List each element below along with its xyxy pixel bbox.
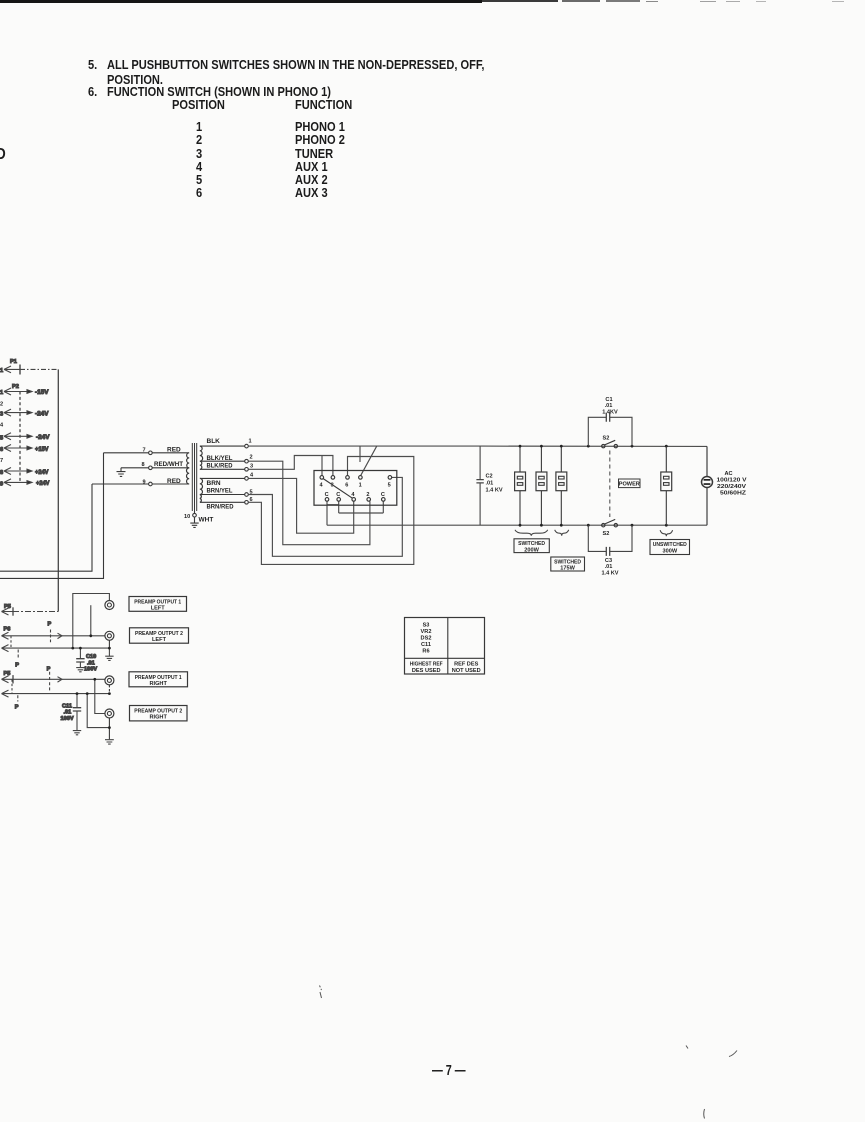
- svg-text:WHT: WHT: [199, 517, 214, 524]
- P2 pin 8 +24V: [0, 468, 49, 477]
- wire loop to jack J1: [73, 594, 110, 649]
- connector P5 lower: [2, 671, 19, 711]
- wire tap4 to selector wiper bottom: [248, 478, 353, 533]
- ground below J4: [105, 740, 114, 744]
- wire tap1 diagonal to selector contact 1: [360, 446, 377, 476]
- T1 tap 6 BRN/RED: [200, 497, 253, 511]
- AC plug J1: [702, 446, 713, 525]
- capacitor C1 bypass across S2 top: [588, 397, 632, 446]
- scan edge bar top: [0, 0, 482, 3]
- svg-text:LEFT: LEFT: [152, 637, 167, 643]
- svg-text:220/240V: 220/240V: [717, 484, 746, 490]
- brace switched 200W outlets: [515, 530, 548, 536]
- svg-text:3: 3: [0, 412, 3, 418]
- svg-text:175W: 175W: [560, 566, 575, 572]
- wire tap2 to selector bottom contact 2: [248, 461, 370, 545]
- svg-text:10: 10: [184, 514, 190, 520]
- svg-text:1.4 KV: 1.4 KV: [601, 571, 618, 577]
- svg-text:9: 9: [0, 481, 3, 487]
- svg-text:NOT USED: NOT USED: [452, 668, 481, 674]
- svg-text:-24V: -24V: [36, 434, 50, 441]
- ground below J2: [105, 648, 113, 660]
- svg-text:2: 2: [0, 402, 3, 408]
- T1 secondary winding upper: [200, 446, 203, 469]
- svg-text:R6: R6: [422, 649, 429, 655]
- RCA jack J2 preamp output 2 left: [105, 631, 114, 648]
- svg-text:C10: C10: [86, 654, 96, 660]
- svg-text:P: P: [47, 666, 51, 672]
- svg-text:100V: 100V: [84, 667, 97, 673]
- svg-text:.01: .01: [605, 403, 613, 409]
- P2 pin 5 -24V: [0, 433, 50, 442]
- svg-text:BRN/RED: BRN/RED: [207, 504, 234, 511]
- svg-text:.01: .01: [64, 710, 72, 716]
- P2 pin 6 +15V: [0, 445, 49, 454]
- svg-text:C1: C1: [605, 397, 612, 403]
- label POWER: [619, 479, 641, 488]
- voltage selector switch S1: [314, 471, 397, 506]
- wire jack J4 shell to ground bus: [87, 694, 109, 728]
- AC primary rails and selector wiring: [248, 446, 707, 564]
- svg-text:LEFT: LEFT: [151, 606, 166, 612]
- T1 pin 8: [121, 461, 189, 469]
- wire branch to jack J4: [95, 679, 105, 713]
- page number: [432, 1063, 466, 1079]
- svg-text:1.4 KV: 1.4 KV: [486, 487, 503, 493]
- svg-text:8: 8: [0, 470, 3, 476]
- svg-text:7: 7: [0, 458, 3, 464]
- transformer T1: [0, 438, 254, 578]
- svg-text:HIGHEST REF: HIGHEST REF: [410, 662, 444, 668]
- wire top rail (BLK): [248, 445, 707, 447]
- zone letter D at left edge: [0, 146, 6, 164]
- RCA jack J3 preamp output 1 right: [105, 676, 114, 694]
- svg-text:P: P: [48, 622, 52, 628]
- svg-text:BLK: BLK: [207, 438, 221, 445]
- wire jack J2 branch: [90, 605, 92, 636]
- svg-text:4: 4: [320, 483, 324, 489]
- junction dots on rails: [519, 445, 668, 527]
- wire P6 row2 ground bus: [13, 647, 109, 649]
- svg-text:1: 1: [359, 483, 362, 489]
- AC outlet SO2: [536, 446, 547, 525]
- label SWITCHED 200W: [514, 539, 549, 554]
- wire selector common bus: [327, 501, 383, 525]
- svg-text:C11: C11: [421, 642, 431, 648]
- power switch S2 bottom section: [602, 519, 618, 536]
- T1 pin 10 and WHT lead: [184, 511, 213, 524]
- capacitor C2: [476, 446, 502, 525]
- T1 tap 2 BLK/YEL: [200, 455, 253, 463]
- svg-text:100/120 V: 100/120 V: [717, 477, 747, 483]
- svg-text:.01: .01: [486, 480, 494, 486]
- svg-text:BRN/YEL: BRN/YEL: [207, 488, 233, 495]
- label SWITCHED 175W: [551, 557, 585, 572]
- RCA jack J4 preamp output 2 right: [105, 709, 114, 739]
- wire bottom rail: [327, 524, 707, 526]
- wire tap5 loop to selector contact 5: [248, 477, 402, 556]
- AC outlet SO4 unswitched: [661, 446, 672, 525]
- brace unswitched outlet: [660, 530, 673, 536]
- T1 tap 4: [200, 473, 254, 481]
- svg-text:P5: P5: [4, 671, 11, 677]
- S2 mechanical link: [609, 451, 611, 518]
- T1 pin 7: [104, 446, 190, 454]
- wire pin9 to page edge: [0, 484, 92, 571]
- svg-text:BRN: BRN: [207, 480, 221, 487]
- svg-text:-24V: -24V: [35, 410, 49, 417]
- P2 pin 1 -15V: [0, 388, 49, 396]
- svg-text:5: 5: [0, 435, 3, 441]
- capacitor C3 bypass across S2 bottom: [588, 525, 632, 576]
- svg-text:VR2: VR2: [421, 629, 432, 635]
- label UNSWITCHED 300W: [650, 540, 690, 555]
- svg-text:+24V: +24V: [35, 469, 49, 476]
- P2 pin 9 +24V: [0, 479, 50, 488]
- svg-text:C: C: [381, 492, 385, 498]
- svg-text:C11: C11: [62, 703, 72, 709]
- note text block: [88, 57, 97, 72]
- T1 tap 1 BLK: [200, 438, 252, 448]
- capacitor C10: [76, 648, 97, 673]
- wire branch to selector contact 4: [321, 456, 323, 476]
- svg-text:S2: S2: [603, 531, 610, 537]
- connector P5 upper: [2, 604, 59, 616]
- reference designator table: [405, 618, 485, 675]
- T1 core: [192, 443, 196, 511]
- wire P1 vertical bus down to P5: [57, 369, 59, 611]
- svg-text:P: P: [15, 705, 19, 711]
- T1 tap 3 BLK/RED: [200, 463, 253, 472]
- svg-text:.01: .01: [605, 564, 613, 570]
- svg-text:5: 5: [388, 483, 391, 489]
- brace switched 175W outlet: [555, 530, 569, 536]
- connector P2: [12, 384, 20, 482]
- svg-text:RED/WHT: RED/WHT: [154, 461, 183, 468]
- svg-text:PREAMP OUTPUT 1: PREAMP OUTPUT 1: [135, 675, 182, 681]
- svg-text:PREAMP OUTPUT 2: PREAMP OUTPUT 2: [135, 631, 183, 637]
- label AC voltage ratings: [717, 471, 747, 497]
- svg-text:C2: C2: [486, 474, 493, 480]
- wire pin7 to page edge: [0, 453, 104, 579]
- svg-text:50/60HZ: 50/60HZ: [720, 490, 747, 496]
- wire P6 row1 to jack J2: [13, 622, 105, 643]
- svg-text:AC: AC: [725, 471, 733, 477]
- P2 pin 3 -24V: [0, 409, 49, 418]
- S1 wiper arm: [323, 479, 352, 499]
- svg-text:S3: S3: [423, 623, 430, 629]
- svg-text:1: 1: [249, 439, 252, 445]
- svg-text:1: 1: [0, 368, 3, 374]
- junction dots bottom left: [71, 634, 110, 729]
- svg-text:RIGHT: RIGHT: [149, 715, 167, 721]
- svg-text:.01: .01: [87, 660, 95, 666]
- label PREAMP OUTPUT 1 LEFT: [129, 597, 187, 612]
- svg-text:4: 4: [0, 422, 4, 428]
- svg-text:P6: P6: [4, 627, 11, 633]
- svg-text:-15V: -15V: [35, 389, 49, 396]
- power switch S2 top section: [602, 436, 618, 448]
- svg-text:200W: 200W: [524, 547, 539, 553]
- svg-text:P2: P2: [12, 384, 19, 390]
- svg-text:+24V: +24V: [36, 480, 50, 487]
- RCA jack J1 preamp output 1 left: [105, 601, 114, 610]
- wire tap6 loop to selector contact 6: [248, 457, 413, 565]
- svg-text:P: P: [15, 663, 19, 669]
- svg-text:PREAMP OUTPUT 1: PREAMP OUTPUT 1: [134, 599, 181, 605]
- svg-text:DES USED: DES USED: [412, 668, 441, 674]
- T1 primary winding upper (pin7-8): [187, 453, 190, 468]
- svg-text:REF DES: REF DES: [454, 662, 479, 668]
- label PREAMP OUTPUT 1 RIGHT: [129, 672, 188, 687]
- svg-text:100V: 100V: [61, 716, 74, 722]
- svg-text:C3: C3: [605, 558, 612, 564]
- AC outlet SO3: [556, 446, 567, 525]
- svg-text:C: C: [336, 492, 340, 498]
- S1 bottom contacts: [325, 498, 329, 502]
- svg-text:4: 4: [250, 473, 254, 479]
- svg-text:DS2: DS2: [421, 636, 432, 642]
- AC outlet SO1: [515, 446, 526, 525]
- svg-text:4: 4: [351, 492, 355, 498]
- capacitor C11: [61, 694, 82, 735]
- svg-text:300W: 300W: [662, 549, 677, 555]
- T1 pin 9: [92, 478, 189, 486]
- svg-text:S2: S2: [603, 436, 610, 442]
- svg-text:UNSWITCHED: UNSWITCHED: [653, 542, 687, 548]
- S1 top contacts: [320, 476, 324, 480]
- svg-text:SWITCHED: SWITCHED: [554, 559, 581, 565]
- svg-text:6: 6: [345, 483, 348, 489]
- T1 secondary winding lower: [200, 478, 203, 502]
- wire P5 row2 ground bus: [13, 693, 109, 695]
- svg-text:+15V: +15V: [35, 446, 49, 453]
- ground at T1 pin 10: [190, 523, 198, 527]
- svg-text:POWER: POWER: [619, 482, 640, 488]
- scan speckles: [320, 986, 738, 1119]
- svg-text:PREAMP OUTPUT 2: PREAMP OUTPUT 2: [134, 709, 182, 715]
- label PREAMP OUTPUT 2 LEFT: [130, 628, 189, 643]
- T1 tap 5 BRN / BRN/YEL: [200, 480, 253, 497]
- wire P5 row1 to jack J3: [13, 666, 105, 692]
- svg-text:P1: P1: [10, 359, 17, 365]
- connector P6: [2, 627, 20, 669]
- label PREAMP OUTPUT 2 RIGHT: [130, 706, 188, 721]
- svg-text:2: 2: [250, 455, 253, 461]
- ground at T1 pin 8: [117, 468, 126, 477]
- svg-text:2: 2: [366, 492, 369, 498]
- connector P1: [0, 359, 58, 375]
- svg-text:C: C: [325, 492, 329, 498]
- svg-text:BLK/RED: BLK/RED: [207, 463, 233, 470]
- svg-text:RIGHT: RIGHT: [149, 681, 167, 687]
- svg-text:3: 3: [250, 463, 253, 469]
- svg-text:SWITCHED: SWITCHED: [518, 541, 545, 547]
- T1 primary winding lower (pin8-9): [186, 468, 189, 484]
- wire tap3 jog to selector contact 3: [248, 456, 333, 476]
- svg-text:6: 6: [0, 447, 3, 453]
- svg-text:1: 1: [0, 390, 3, 396]
